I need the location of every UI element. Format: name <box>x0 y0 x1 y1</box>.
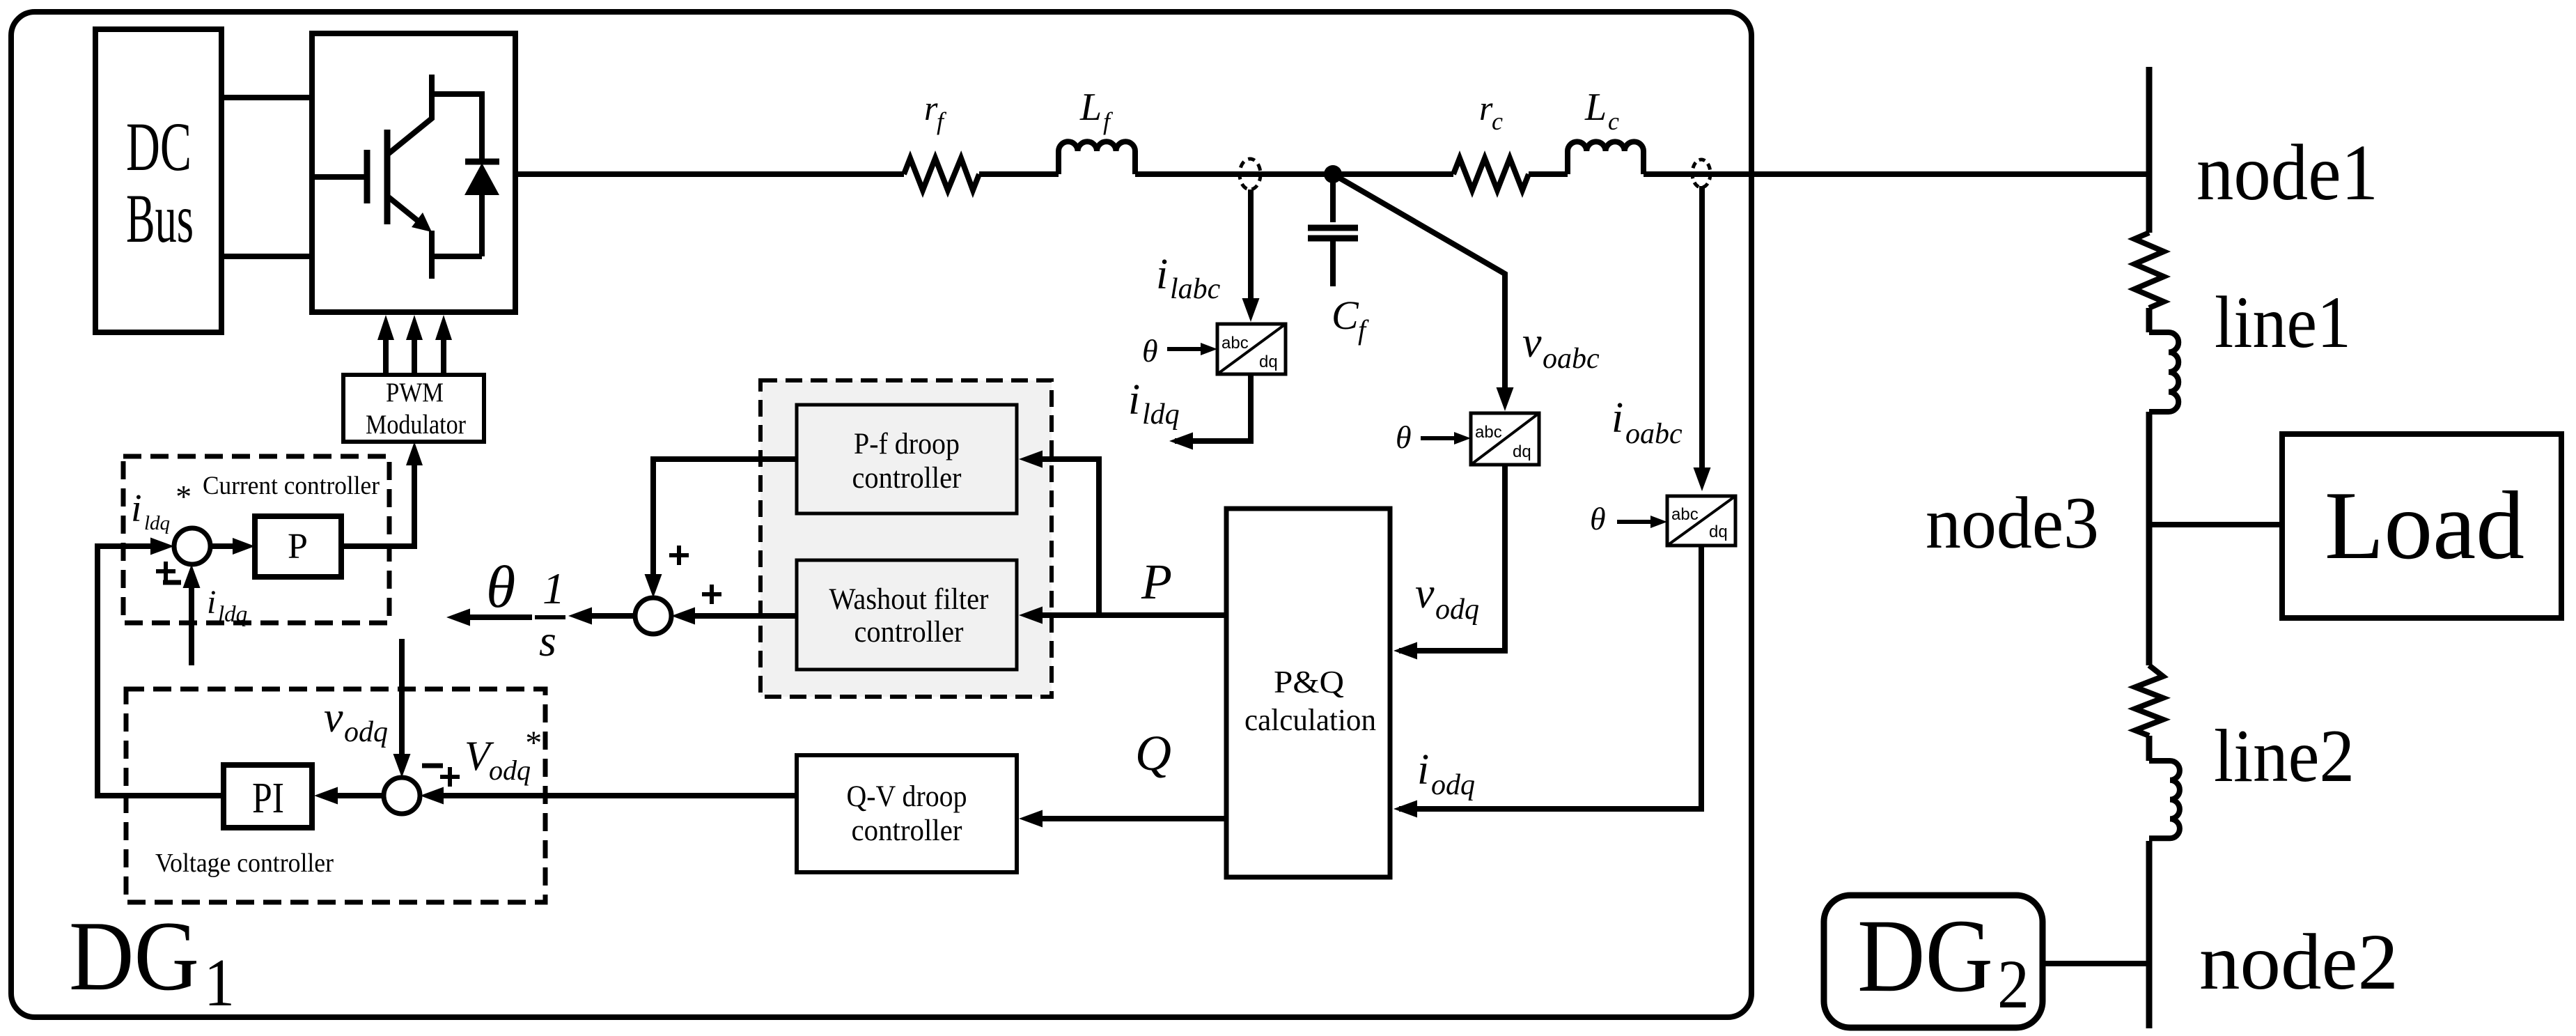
wire Q from P&Q to Q-V droop <box>1043 816 1226 821</box>
wire ildq output of T1 <box>1175 374 1251 441</box>
svg-text:ldq: ldq <box>218 602 247 627</box>
svg-text:θ: θ <box>1590 501 1606 536</box>
label vodq (voltage controller) <box>324 694 388 748</box>
PWM Modulator block <box>343 375 484 442</box>
svg-text:node3: node3 <box>1926 482 2099 564</box>
wire P output to PWM with arrow <box>341 465 414 546</box>
feedback wire PI to summing node S1 <box>97 546 224 796</box>
label ildq <box>1128 376 1180 431</box>
svg-text:P-f droop: P-f droop <box>854 428 960 461</box>
diode D1 triangle <box>465 163 499 195</box>
resistor rf <box>904 158 979 190</box>
svg-text:i: i <box>131 487 142 530</box>
svg-text:C: C <box>1332 293 1359 338</box>
svg-text:odq: odq <box>344 716 388 748</box>
P&Q calculation block <box>1226 509 1390 877</box>
wire P-f droop output to summing node <box>653 459 797 574</box>
main AC line <box>515 171 2149 177</box>
inductor Lc <box>1568 141 1644 174</box>
summing node S3 <box>384 778 420 814</box>
integrator 1/s <box>535 564 565 665</box>
svg-text:Modulator: Modulator <box>366 410 466 440</box>
svg-text:1: 1 <box>204 945 235 1020</box>
svg-text:θ: θ <box>1142 333 1158 369</box>
label ilabc <box>1156 251 1221 305</box>
svg-text:odq: odq <box>1435 594 1479 626</box>
svg-text:*: * <box>524 725 540 761</box>
svg-text:i: i <box>1417 746 1429 794</box>
svg-text:L: L <box>1079 86 1102 129</box>
wire DC bus to inverter (top) <box>221 95 312 100</box>
svg-text:r: r <box>1479 88 1493 127</box>
label iodq <box>1417 746 1475 801</box>
svg-text:i: i <box>1128 376 1140 424</box>
svg-text:DG: DG <box>1857 898 1993 1014</box>
label rc <box>1479 88 1503 135</box>
minus sign S1 <box>163 580 181 585</box>
label P <box>1141 554 1172 610</box>
line1 resistor <box>2134 233 2164 308</box>
svg-text:i: i <box>1611 394 1623 442</box>
label voabc <box>1522 319 1600 375</box>
IGBT Q1 gate bar <box>364 150 370 203</box>
freewheel diode D1 branch <box>429 94 482 162</box>
svg-text:node2: node2 <box>2199 918 2398 1006</box>
P block <box>255 516 341 577</box>
line1 inductor <box>2149 332 2178 412</box>
svg-text:r: r <box>924 88 938 127</box>
svg-text:Current controller: Current controller <box>203 472 380 500</box>
plus sign S3 right <box>440 767 460 787</box>
label ildq feedback <box>207 584 247 627</box>
minus sign S3 top <box>422 764 443 768</box>
svg-text:controller: controller <box>852 462 962 495</box>
line2 resistor <box>2135 665 2163 736</box>
label Lc <box>1584 86 1619 135</box>
svg-text:DC: DC <box>126 108 192 185</box>
node junction dot <box>1324 165 1342 183</box>
svg-text:dq: dq <box>1513 442 1531 461</box>
svg-text:c: c <box>1608 107 1619 135</box>
svg-text:PI: PI <box>252 775 284 822</box>
svg-text:c: c <box>1492 107 1503 135</box>
svg-text:P: P <box>288 527 308 566</box>
DG1 label <box>69 901 235 1020</box>
svg-text:s: s <box>539 616 556 665</box>
theta input T3 <box>1590 501 1606 536</box>
Voltage controller dashed box <box>126 689 545 902</box>
summing node S1 <box>174 528 210 564</box>
resistor rc <box>1453 158 1529 190</box>
inductor Lf <box>1059 141 1135 174</box>
wire S3 to PI <box>338 793 384 798</box>
IGBT Q1 gate lead <box>312 174 365 180</box>
wire ioabc down with arrow <box>1699 186 1705 467</box>
svg-text:i: i <box>207 584 216 621</box>
wire P from P&Q to washout filter <box>1043 612 1226 618</box>
svg-text:L: L <box>1584 86 1607 129</box>
capacitor Cf <box>1308 174 1358 286</box>
svg-text:line2: line2 <box>2214 715 2355 798</box>
current sense point ioabc (dashed ellipse) <box>1692 160 1710 187</box>
wire voabc tap with arrow <box>1333 174 1505 387</box>
abc/dq block T2 <box>1471 413 1539 465</box>
svg-text:θ: θ <box>486 553 515 620</box>
svg-text:v: v <box>1415 570 1435 617</box>
wire iodq to P&Q calc <box>1399 546 1701 809</box>
svg-text:oabc: oabc <box>1625 418 1683 450</box>
svg-text:P: P <box>1141 554 1172 610</box>
wire DC bus to inverter (bottom) <box>221 254 312 259</box>
plus sign top input <box>669 546 689 565</box>
label vodq <box>1415 570 1479 626</box>
svg-text:Voltage controller: Voltage controller <box>155 849 334 878</box>
Washout filter controller block <box>797 560 1017 670</box>
svg-text:controller: controller <box>854 616 964 649</box>
Current controller dashed box <box>123 456 389 623</box>
IGBT Q1 emitter lead <box>429 231 435 279</box>
wire summing node to integrator <box>592 613 635 619</box>
wire vodq to P&Q calc <box>1399 465 1505 651</box>
wire ilabc down with arrow <box>1248 190 1254 298</box>
svg-text:line1: line1 <box>2215 281 2351 363</box>
PWM gate arrows <box>377 315 452 375</box>
svg-text:abc: abc <box>1671 505 1699 524</box>
svg-text:i: i <box>1156 251 1168 298</box>
P-f droop controller block <box>797 405 1017 513</box>
svg-text:P&Q: P&Q <box>1274 664 1344 699</box>
label rf <box>924 88 947 135</box>
label Lf <box>1079 86 1114 135</box>
wire DG2 to node2 <box>2043 961 2149 966</box>
wire theta output arrow <box>470 614 532 620</box>
IGBT Q1 body bar <box>384 130 391 224</box>
label Q <box>1135 725 1171 781</box>
svg-text:abc: abc <box>1475 423 1502 442</box>
plus sign S1 <box>156 562 175 581</box>
wire washout output to summing node <box>695 613 797 619</box>
label theta output <box>486 553 515 620</box>
wire P branch to P-f droop <box>1043 459 1099 615</box>
svg-text:ldq: ldq <box>144 512 170 534</box>
svg-text:Bus: Bus <box>126 180 194 257</box>
diode D1 cathode bar <box>465 159 499 165</box>
svg-text:labc: labc <box>1170 273 1221 305</box>
wire ildq feedback into S1 <box>189 588 194 665</box>
diode D1 anode lead <box>429 194 482 256</box>
inverter block <box>312 33 515 312</box>
svg-text:DG: DG <box>69 901 199 1011</box>
wire S1 to P block <box>210 543 234 549</box>
wire vodq into S3 <box>399 639 405 754</box>
svg-text:Q-V droop: Q-V droop <box>847 780 967 813</box>
current sense point iabc (dashed ellipse) <box>1240 159 1260 190</box>
label Cf <box>1332 293 1369 346</box>
svg-text:abc: abc <box>1221 334 1249 353</box>
svg-text:2: 2 <box>1997 945 2029 1023</box>
svg-text:dq: dq <box>1709 523 1728 541</box>
droop container (gray dashed) <box>760 380 1052 697</box>
summing node S2 <box>635 598 671 634</box>
svg-text:v: v <box>1522 319 1542 366</box>
line2 inductor <box>2149 761 2180 838</box>
DG2 block <box>1824 895 2043 1028</box>
IGBT Q1 emitter with arrow <box>389 197 421 224</box>
svg-text:oabc: oabc <box>1543 343 1600 375</box>
svg-text:calculation: calculation <box>1244 703 1376 737</box>
wire Q-V droop output to summing node S3 <box>444 793 797 798</box>
svg-text:v: v <box>324 694 343 741</box>
svg-text:1: 1 <box>542 564 565 613</box>
Load block <box>2282 434 2561 618</box>
wire node3 to Load <box>2149 522 2282 527</box>
abc/dq block T1 <box>1217 324 1286 374</box>
svg-text:θ: θ <box>1396 419 1412 455</box>
DC Bus block <box>95 29 221 332</box>
svg-text:Q: Q <box>1135 725 1171 781</box>
svg-text:*: * <box>174 479 190 514</box>
PI block <box>224 765 312 828</box>
theta input T2 <box>1396 419 1412 455</box>
node1 bus <box>2146 67 2153 1028</box>
label ioabc <box>1611 394 1683 450</box>
svg-text:controller: controller <box>852 814 962 847</box>
svg-text:node1: node1 <box>2196 128 2378 217</box>
plus sign right input <box>702 585 721 604</box>
label Vodq* <box>465 725 540 786</box>
svg-text:Load: Load <box>2325 472 2524 580</box>
svg-text:ldq: ldq <box>1142 399 1180 431</box>
theta input T1 <box>1142 333 1158 369</box>
DG1 enclosure box <box>11 12 1751 1017</box>
svg-text:PWM: PWM <box>386 378 444 408</box>
svg-text:odq: odq <box>1431 769 1475 801</box>
Q-V droop controller block <box>797 755 1017 872</box>
label ildq* reference <box>131 479 190 534</box>
svg-text:Washout filter: Washout filter <box>829 583 989 616</box>
abc/dq block T3 <box>1667 496 1735 546</box>
IGBT Q1 collector <box>387 75 432 155</box>
svg-text:dq: dq <box>1259 353 1278 371</box>
